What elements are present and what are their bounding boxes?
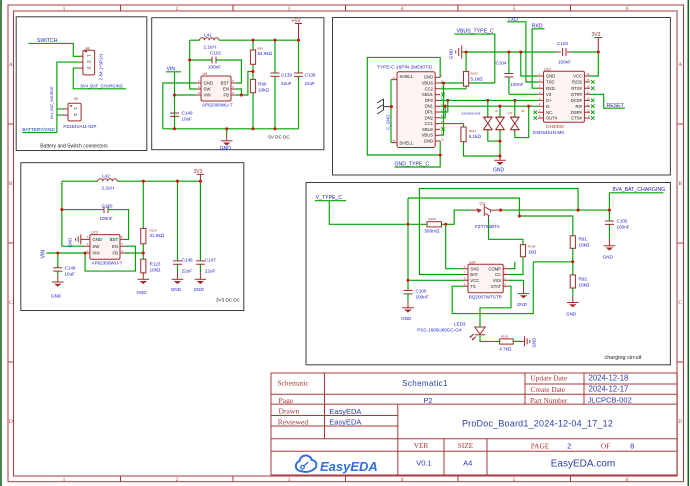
net label TXD	[507, 17, 538, 82]
resistor R92 10k	[570, 275, 590, 288]
svg-text:2024-12-17: 2024-12-17	[589, 385, 629, 394]
junction dots 5V rail	[173, 39, 300, 131]
svg-text:2: 2	[72, 113, 78, 116]
svg-text:100nF: 100nF	[100, 216, 113, 221]
svg-text:100nF: 100nF	[208, 65, 221, 70]
svg-text:2-54 1*3P1H: 2-54 1*3P1H	[99, 54, 104, 80]
svg-text:VSS: VSS	[493, 278, 502, 283]
svg-text:C: C	[678, 300, 682, 306]
svg-text:5V DC DC: 5V DC DC	[268, 135, 290, 140]
svg-text:BST: BST	[110, 237, 119, 242]
junction dots charging	[406, 209, 611, 282]
connector H6	[63, 97, 81, 121]
svg-text:R123: R123	[150, 262, 161, 267]
svg-text:SHELL: SHELL	[399, 74, 413, 79]
svg-text:Create Date: Create Date	[531, 385, 566, 394]
svg-text:C148: C148	[182, 258, 193, 263]
capacitor C103	[552, 41, 598, 65]
transistor Q11 FZT788BTA	[471, 202, 501, 229]
svg-text:C149: C149	[65, 265, 76, 270]
wire collector to battery line	[501, 209, 610, 211]
svg-text:4.7kΩ: 4.7kΩ	[499, 346, 512, 351]
svg-text:DP2: DP2	[425, 98, 434, 103]
capacitor C105	[605, 210, 630, 239]
ground symbol USB esd	[493, 153, 506, 173]
svg-text:R124: R124	[150, 228, 158, 232]
ground symbol R123	[137, 272, 150, 295]
border row letters right	[678, 62, 682, 425]
svg-text:GND: GND	[171, 287, 182, 292]
svg-text:2: 2	[567, 441, 571, 450]
svg-text:3V3: 3V3	[194, 169, 203, 175]
svg-text:U7: U7	[495, 109, 499, 113]
svg-text:CC: CC	[495, 272, 501, 277]
svg-text:GND_TYPE_C: GND_TYPE_C	[395, 162, 430, 168]
IC U12 CH340C	[533, 67, 590, 135]
title block table lines	[271, 373, 677, 475]
svg-text:DSR#: DSR#	[571, 110, 583, 115]
wire VCC to 3V3	[590, 52, 598, 76]
svg-text:R105: R105	[501, 335, 509, 339]
svg-text:22uF: 22uF	[281, 81, 292, 86]
border ticks top	[121, 5, 571, 11]
wire H8 pin3 to net 8V4_BAT_CHARGING	[73, 68, 126, 89]
section box: Battery and Switch connectors	[16, 17, 147, 151]
wire D- line	[440, 105, 538, 107]
svg-text:Update Date: Update Date	[531, 374, 568, 383]
net label RXD	[532, 24, 545, 89]
svg-text:SIZE: SIZE	[458, 441, 474, 450]
wire EN tie to VIN loop	[85, 246, 135, 271]
wire SNS branch	[446, 224, 463, 268]
svg-text:A4: A4	[463, 459, 472, 468]
wire DTR# to RESET	[590, 94, 625, 108]
svg-text:ESD5451N-M6: ESD5451N-M6	[462, 111, 481, 115]
border column numbers top	[63, 6, 629, 12]
svg-text:8V4_BAT_CHARGING: 8V4_BAT_CHARGING	[81, 84, 124, 89]
svg-text:SW: SW	[92, 244, 100, 249]
svg-text:GND: GND	[92, 237, 102, 242]
svg-text:DP1: DP1	[425, 110, 434, 115]
svg-text:SHELL: SHELL	[399, 141, 413, 146]
ground symbol GND left (sideways)	[448, 46, 466, 60]
svg-text:RESET: RESET	[607, 103, 625, 109]
svg-text:560mΩ: 560mΩ	[425, 228, 440, 233]
no-connect X CH340 right pins	[591, 80, 595, 84]
wire 5V top rail	[190, 39, 299, 41]
capacitor C147	[196, 181, 216, 273]
svg-text:C150: C150	[102, 203, 113, 208]
connector H8	[79, 47, 95, 75]
ground symbol 5V	[220, 129, 233, 152]
svg-text:1: 1	[72, 107, 78, 110]
svg-text:H6: H6	[74, 97, 79, 101]
svg-text:TS: TS	[470, 284, 476, 289]
svg-text:3: 3	[288, 477, 291, 483]
wire VSS to gnd	[508, 280, 523, 286]
EasyEDA logo cloud	[296, 455, 378, 473]
svg-text:2024-12-18: 2024-12-18	[589, 373, 629, 382]
svg-text:C104: C104	[496, 61, 507, 66]
svg-text:V0.1: V0.1	[416, 459, 431, 468]
svg-text:GND: GND	[51, 293, 62, 298]
sheet edge green line right	[687, 0, 689, 486]
wire V3 net	[509, 93, 538, 95]
wire COMP pin stub	[508, 262, 514, 269]
svg-text:R93: R93	[258, 47, 264, 51]
capacitor C148	[173, 181, 193, 273]
svg-text:GND: GND	[137, 290, 148, 295]
svg-text:BAT: BAT	[470, 272, 478, 277]
svg-text:BQ2057WTSTR: BQ2057WTSTR	[469, 294, 503, 299]
resistor R103 5.1k	[440, 52, 483, 89]
capacitor C138	[294, 40, 316, 129]
TVS diode U10 ESD5451N-M6	[496, 106, 513, 156]
svg-text:SNS: SNS	[470, 266, 479, 271]
svg-text:2: 2	[176, 6, 179, 12]
wire DN2 up to D-	[440, 106, 445, 118]
svg-text:U12: U12	[544, 67, 551, 71]
svg-text:10uF: 10uF	[65, 271, 76, 276]
svg-text:VCC: VCC	[573, 74, 582, 79]
svg-text:R92: R92	[579, 276, 588, 281]
svg-text:GND: GND	[517, 302, 528, 307]
svg-text:U8: U8	[521, 109, 525, 113]
svg-text:RXD: RXD	[546, 86, 555, 91]
wire R104 to CC pin	[508, 257, 523, 275]
svg-text:GND: GND	[424, 139, 433, 144]
svg-text:PSC-1608U60GC-G4: PSC-1608U60GC-G4	[417, 327, 462, 332]
connector TYPE-C body	[391, 72, 444, 148]
svg-text:+5V: +5V	[292, 19, 302, 25]
svg-text:DN2: DN2	[425, 115, 434, 120]
wire CH340 GND pin to gnd rail	[521, 52, 538, 76]
svg-text:54.9kΩ: 54.9kΩ	[258, 51, 273, 56]
svg-text:1: 1	[63, 6, 66, 12]
capacitor C150	[62, 203, 113, 221]
resistor R93 54.9k	[250, 40, 272, 71]
svg-text:8V4_BAT_SOURCE: 8V4_BAT_SOURCE	[50, 86, 54, 119]
svg-text:C_GND: C_GND	[385, 115, 390, 130]
section box: 5V DC DC	[152, 18, 324, 150]
power symbol 3V3 (CH340)	[592, 32, 603, 52]
IC U24 BQ2057WTSTR	[463, 260, 508, 299]
capacitor C140	[170, 111, 193, 122]
svg-text:100nF: 100nF	[510, 82, 523, 87]
junction dots 3V3	[56, 180, 202, 255]
svg-text:22uF: 22uF	[305, 81, 316, 86]
svg-text:VCC: VCC	[470, 278, 479, 283]
svg-text:5: 5	[513, 477, 516, 483]
svg-text:PAGE: PAGE	[531, 441, 550, 450]
capacitor C102	[190, 51, 222, 70]
no-connect X SBU1 and SBU2	[441, 93, 445, 97]
svg-text:NC.: NC.	[546, 110, 553, 115]
resistor R104 1k	[520, 245, 536, 257]
svg-text:R104: R104	[528, 245, 536, 249]
capacitor C106	[404, 280, 429, 301]
svg-text:C103: C103	[557, 41, 568, 46]
svg-text:SBU1: SBU1	[422, 92, 434, 97]
no-connect X CH340 left NC OUT#	[534, 110, 538, 114]
resistor R106 560m	[425, 217, 442, 233]
section box: charging circuit	[306, 183, 670, 365]
wire L42 left node down to SW pin	[62, 181, 85, 246]
svg-text:STAT: STAT	[491, 284, 502, 289]
svg-text:1: 1	[86, 54, 92, 57]
svg-text:SBU2: SBU2	[422, 127, 434, 132]
svg-text:EasyEDA: EasyEDA	[320, 459, 378, 474]
wire C102 to BST pin	[216, 60, 241, 83]
wire EN FB to divider junction	[236, 72, 253, 96]
resistor R90 10k	[250, 72, 269, 129]
svg-text:AP62300WU-7: AP62300WU-7	[92, 261, 123, 266]
sheet edge green line left	[0, 0, 2, 486]
svg-text:EasyEDA: EasyEDA	[329, 407, 361, 416]
svg-text:DCD#: DCD#	[571, 98, 583, 103]
wire C_GND outer loop	[367, 57, 440, 155]
wire 5V bottom gnd rail	[163, 128, 299, 130]
svg-text:BATTERY/GND: BATTERY/GND	[22, 127, 55, 132]
wire C150 to BST pin	[108, 210, 129, 240]
wire LED3 to R105	[480, 336, 500, 342]
ground symbol R92	[566, 288, 579, 316]
TVS diode U8 ESD5451N-M6	[511, 100, 529, 137]
svg-text:OUT#: OUT#	[546, 116, 558, 121]
resistor R124 31.6k	[141, 181, 165, 259]
svg-text:EasyEDA.com: EasyEDA.com	[551, 458, 615, 469]
IC U9 AP62300WU-7	[196, 72, 236, 108]
svg-text:U23: U23	[91, 231, 98, 235]
svg-text:CC2: CC2	[425, 86, 434, 91]
svg-text:3: 3	[288, 6, 291, 12]
svg-text:4: 4	[401, 477, 404, 483]
ground symbol C105	[603, 239, 616, 259]
border column numbers bottom	[63, 477, 629, 483]
svg-text:B: B	[9, 181, 13, 187]
wire D+ line	[440, 99, 538, 101]
chassis ground symbol	[377, 99, 391, 114]
svg-text:6: 6	[626, 6, 629, 12]
svg-text:10uF: 10uF	[182, 117, 193, 122]
svg-text:B: B	[678, 181, 682, 187]
junction dots typec/ch340	[390, 50, 600, 157]
svg-text:Part Number: Part Number	[530, 396, 568, 405]
capacitor C149	[53, 253, 76, 276]
svg-text:RI#: RI#	[575, 104, 582, 109]
svg-text:TXD: TXD	[546, 80, 554, 85]
wire STAT to LED3	[480, 286, 511, 326]
svg-text:C105: C105	[617, 219, 628, 224]
svg-text:EN: EN	[112, 244, 118, 249]
resistor R105 4.7k	[499, 335, 513, 352]
svg-text:Schematic1: Schematic1	[402, 379, 448, 388]
svg-text:EN: EN	[223, 87, 229, 92]
svg-text:D+: D+	[546, 98, 552, 103]
wire VIN vertical	[166, 72, 181, 129]
svg-text:charging circuit: charging circuit	[605, 355, 642, 361]
svg-text:5: 5	[513, 6, 516, 12]
svg-text:AP62300WU-7: AP62300WU-7	[202, 103, 233, 108]
ground symbol C106	[401, 301, 414, 321]
svg-text:R232: R232	[572, 80, 583, 85]
LED LED3 PSC-1608U60GC-G4	[417, 321, 485, 340]
wire 3V3 top rail	[62, 180, 201, 182]
svg-text:ProDoc_Board1_2024-12-04_17_12: ProDoc_Board1_2024-12-04_17_12	[462, 419, 613, 429]
net label 8V4_BAT_CHARGING	[609, 187, 665, 210]
svg-text:GND: GND	[424, 75, 433, 80]
svg-text:GND: GND	[204, 81, 214, 86]
section box: USB type-c / CH340	[333, 18, 671, 176]
svg-text:L42: L42	[102, 174, 110, 179]
ground symbol C149	[51, 275, 64, 298]
border ticks bottom	[121, 476, 571, 482]
resistor R91 10k	[570, 236, 590, 249]
svg-text:ESD5451N-M6: ESD5451N-M6	[533, 130, 564, 135]
svg-text:P2: P2	[423, 396, 432, 405]
svg-text:EasyEDA: EasyEDA	[329, 418, 361, 427]
svg-text:FB: FB	[113, 251, 119, 256]
border ticks right	[677, 124, 684, 362]
svg-text:R106: R106	[429, 217, 437, 221]
svg-text:RTS#: RTS#	[571, 86, 582, 91]
svg-text:VIN: VIN	[92, 251, 99, 256]
svg-text:VBUS: VBUS	[422, 81, 434, 86]
wire battery top line to BAT pin	[419, 189, 578, 275]
wire divider mid to TS pin	[452, 262, 573, 314]
wire shell pins vertical	[390, 80, 392, 143]
wire VIN to U23 VIN pin	[47, 252, 86, 254]
svg-text:A: A	[678, 62, 682, 68]
svg-text:5.1kΩ: 5.1kΩ	[471, 76, 484, 81]
wire VCC rail to R91	[519, 216, 572, 236]
svg-text:31.6kΩ: 31.6kΩ	[150, 233, 165, 238]
wire U9 GND pin to bottom rail	[163, 83, 196, 129]
svg-text:PZ254VA11-02P: PZ254VA11-02P	[63, 124, 96, 129]
svg-text:COMP: COMP	[488, 266, 501, 271]
svg-text:C140: C140	[182, 111, 193, 116]
border ticks left	[8, 124, 14, 362]
svg-text:CC1: CC1	[425, 121, 434, 126]
svg-text:1kΩ: 1kΩ	[528, 249, 537, 254]
power symbol +5V	[292, 19, 303, 41]
ground symbol at U23 GND pin	[68, 234, 85, 247]
wire Q11 base to R104	[489, 219, 524, 245]
svg-text:VBUS: VBUS	[422, 133, 434, 138]
svg-text:GND: GND	[401, 316, 412, 321]
ground symbol R105 (sideways right)	[513, 336, 537, 347]
svg-text:SW: SW	[204, 87, 212, 92]
section box: 3V3 DC DC	[21, 163, 244, 311]
svg-text:3: 3	[86, 66, 92, 69]
wire net SWITCH to H8 pin 1	[29, 43, 80, 56]
svg-text:22uF: 22uF	[205, 268, 216, 273]
svg-text:100nF: 100nF	[617, 225, 630, 230]
wire R106 right to Q11 emitter	[442, 210, 471, 224]
svg-text:OF: OF	[601, 441, 610, 450]
TVS diode U7 ESD5451N-M6	[462, 100, 501, 141]
resistor R102 5.1k	[440, 124, 500, 156]
svg-text:5.1kΩ: 5.1kΩ	[469, 134, 482, 139]
svg-text:C139: C139	[281, 73, 292, 78]
svg-text:GND: GND	[448, 48, 453, 59]
wire FB to divider junction	[125, 252, 143, 254]
svg-text:10kΩ: 10kΩ	[579, 282, 590, 287]
svg-text:VIN: VIN	[41, 250, 47, 259]
svg-text:Drawn: Drawn	[279, 407, 300, 416]
border row letters left	[9, 62, 13, 425]
wire VBUS_TYPE_C down to VBUS pins	[440, 34, 495, 135]
power symbol 3V3	[194, 169, 204, 181]
capacitor C139	[271, 40, 293, 129]
svg-text:U9: U9	[203, 72, 208, 76]
svg-text:6: 6	[626, 477, 629, 483]
svg-text:3V3 DC DC: 3V3 DC DC	[216, 298, 241, 303]
IC U23 AP62300WU-7	[85, 231, 125, 266]
svg-text:VIN: VIN	[204, 93, 211, 98]
svg-text:8: 8	[630, 441, 634, 450]
inductor L42	[98, 174, 118, 191]
svg-text:Reviewed: Reviewed	[278, 417, 309, 426]
svg-text:GND: GND	[220, 146, 232, 152]
resistor R123 10k	[141, 259, 161, 273]
svg-text:2: 2	[176, 477, 179, 483]
inductor L41	[200, 33, 220, 50]
svg-text:R103: R103	[471, 72, 479, 76]
svg-text:10kΩ: 10kΩ	[579, 243, 590, 248]
svg-text:FZT788BTA: FZT788BTA	[475, 224, 501, 229]
svg-text:BST: BST	[221, 81, 230, 86]
ground symbol C148	[171, 272, 184, 292]
svg-text:22uF: 22uF	[182, 268, 193, 273]
svg-text:Schematic: Schematic	[277, 379, 309, 388]
svg-text:V3: V3	[546, 92, 552, 97]
svg-text:U10: U10	[508, 111, 513, 115]
svg-text:10kΩ: 10kΩ	[258, 88, 269, 93]
svg-text:Page: Page	[279, 396, 294, 405]
svg-text:2.2uH: 2.2uH	[204, 45, 216, 50]
svg-text:R91: R91	[579, 237, 588, 242]
wire GND rail top	[466, 51, 552, 53]
wire GND_TYPE_C label stub	[395, 155, 441, 167]
svg-text:TYPE-C 16PIN 2MD(073): TYPE-C 16PIN 2MD(073)	[377, 65, 432, 71]
svg-text:CTS#: CTS#	[571, 116, 582, 121]
svg-text:A: A	[9, 62, 13, 68]
svg-text:LED3: LED3	[454, 321, 466, 326]
svg-text:1: 1	[63, 477, 66, 483]
svg-text:C147: C147	[205, 258, 216, 263]
svg-text:DN1: DN1	[425, 104, 434, 109]
svg-text:GND: GND	[493, 167, 505, 173]
svg-text:U24: U24	[469, 260, 476, 264]
svg-text:GND: GND	[532, 338, 537, 348]
wire VCC pin stub	[408, 279, 463, 281]
svg-text:3V3: 3V3	[592, 32, 601, 38]
svg-text:GND: GND	[566, 311, 577, 316]
svg-text:GND: GND	[603, 254, 614, 259]
svg-text:L41: L41	[204, 33, 212, 38]
wire VCC branch vertical	[408, 198, 519, 280]
svg-text:C: C	[9, 300, 13, 306]
svg-text:C138: C138	[305, 73, 316, 78]
svg-text:FB: FB	[224, 93, 230, 98]
svg-text:4: 4	[401, 6, 404, 12]
svg-text:2.2uH: 2.2uH	[102, 186, 114, 191]
wire DP1 up to D+	[440, 100, 448, 112]
svg-text:DTR#: DTR#	[571, 92, 583, 97]
svg-text:C106: C106	[416, 289, 427, 294]
wire VIN to U9 VIN pin	[175, 94, 197, 96]
